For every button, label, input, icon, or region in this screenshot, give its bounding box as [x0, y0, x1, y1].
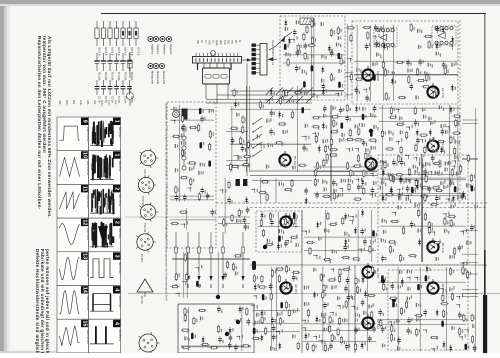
- capacitor: [316, 191, 318, 194]
- svg-text:4: 4: [114, 288, 120, 291]
- value label: [285, 165, 286, 168]
- resistor: [350, 73, 352, 82]
- value label: [396, 163, 397, 166]
- value label: [360, 289, 361, 292]
- value label: [304, 286, 305, 290]
- legend symbol circle row2 3: [159, 63, 164, 68]
- resistor: [293, 92, 302, 94]
- wire junction: [339, 189, 342, 192]
- resistor: [384, 161, 386, 170]
- value label: [375, 239, 376, 242]
- resistor: [390, 245, 392, 254]
- resistor: [383, 282, 385, 291]
- resistor: [346, 27, 355, 29]
- resistor: [329, 324, 331, 333]
- value label: [308, 136, 309, 139]
- wire: [283, 89, 344, 91]
- resistor: [233, 88, 235, 97]
- value label: [411, 270, 412, 273]
- diode: [362, 276, 364, 284]
- value label: [193, 179, 194, 182]
- value label: [299, 66, 300, 69]
- resistor: [415, 143, 417, 152]
- choke coil: [196, 281, 199, 287]
- wire junction: [182, 282, 186, 286]
- legend trimmer row2 item 1: [94, 53, 100, 71]
- value label: [337, 129, 338, 132]
- value label: [264, 145, 265, 148]
- diode: [416, 129, 418, 137]
- svg-text:AF 239: AF 239: [376, 71, 380, 81]
- resistor: [292, 110, 294, 119]
- value label: [293, 99, 294, 102]
- bus wire c: [217, 94, 340, 96]
- value label: [428, 172, 429, 175]
- resistor: [362, 27, 371, 29]
- video oscillogram trace 1: [101, 121, 102, 143]
- value label: [296, 243, 297, 247]
- resistor: [408, 255, 417, 257]
- resistor: [330, 28, 332, 37]
- wire: [186, 208, 188, 230]
- channel switch contacts: [253, 118, 262, 124]
- choke coil: [253, 328, 256, 334]
- capacitor: [459, 311, 461, 314]
- value label: [421, 285, 422, 288]
- diode: [362, 178, 364, 186]
- resistor: [186, 273, 188, 282]
- value label: [421, 154, 422, 158]
- value label: [296, 277, 297, 280]
- resistor: [286, 265, 288, 274]
- transformer primary circle: [173, 111, 180, 118]
- value label: [274, 132, 275, 135]
- capacitor: [417, 137, 419, 140]
- resistor: [170, 286, 179, 288]
- value label: [326, 285, 327, 288]
- bus wire g: [250, 264, 487, 266]
- oscillogram trace 15: [60, 326, 80, 347]
- resistor: [410, 23, 412, 32]
- value label: [187, 310, 188, 313]
- capacitor: [340, 107, 342, 110]
- value label: [318, 179, 319, 182]
- module box line output: [178, 304, 254, 353]
- wire: [304, 250, 376, 252]
- wire junction: [330, 269, 333, 272]
- value label: [341, 54, 342, 57]
- value label: [395, 80, 396, 83]
- choke coil: [392, 301, 395, 307]
- resistor: [333, 119, 335, 128]
- module box AFC: [256, 211, 302, 252]
- diode: [442, 26, 444, 34]
- value label: [428, 73, 429, 76]
- value label: [389, 97, 390, 100]
- value label: [458, 122, 459, 125]
- value label: [327, 139, 328, 142]
- wire: [421, 158, 423, 262]
- resistor: [315, 168, 317, 177]
- value label: [435, 171, 436, 175]
- value label: [340, 44, 341, 47]
- legend cap row3 item 3: [108, 80, 113, 95]
- resistor: [246, 307, 248, 316]
- choke coil: [338, 82, 341, 88]
- capacitor: [382, 326, 384, 329]
- wire: [354, 74, 458, 76]
- value label: [296, 20, 297, 24]
- value label: [245, 118, 246, 121]
- value label: [449, 178, 450, 182]
- capacitor: [228, 197, 230, 200]
- resistor: [424, 146, 426, 155]
- resistor: [414, 314, 423, 316]
- value label: [283, 130, 284, 134]
- video oscillogram tag 1: [113, 151, 120, 158]
- value label: [308, 285, 309, 288]
- value label: [240, 253, 241, 256]
- value label: [189, 167, 190, 171]
- svg-text:R1 10k: R1 10k: [97, 72, 101, 81]
- wire: [419, 267, 421, 351]
- value label: [337, 296, 338, 300]
- value label: [453, 107, 454, 110]
- diode: [289, 37, 291, 45]
- capacitor: [379, 309, 381, 312]
- value label: [402, 284, 403, 287]
- value label: [416, 318, 417, 322]
- wire junction: [350, 217, 354, 221]
- resistor: [260, 218, 262, 227]
- value label: [432, 227, 433, 230]
- value label: [283, 98, 284, 101]
- value label: [401, 157, 402, 160]
- value label: [297, 215, 298, 218]
- bus wire vertical: [246, 63, 248, 176]
- diode: [345, 213, 347, 221]
- resistor: [189, 127, 198, 129]
- wire junction: [380, 161, 384, 165]
- resistor: [261, 275, 263, 284]
- value label: [360, 70, 361, 73]
- value label: [257, 329, 258, 332]
- tube socket V3 PCL86: [140, 204, 155, 219]
- resistor: [471, 174, 473, 183]
- wire junction: [440, 289, 443, 292]
- video oscillogram box 1 frame: [89, 151, 121, 185]
- wire junction: [460, 232, 464, 236]
- wire junction: [459, 337, 462, 340]
- capacitor: [371, 187, 373, 190]
- value label: [449, 255, 450, 259]
- value label: [185, 152, 186, 155]
- resistor: [284, 189, 293, 191]
- value label: [325, 313, 326, 316]
- value label: [445, 161, 446, 165]
- value label: [407, 297, 408, 301]
- value label: [289, 304, 290, 307]
- resistor: [443, 309, 445, 318]
- resistor: [419, 134, 428, 136]
- svg-text:9: 9: [82, 120, 88, 123]
- resistor: [424, 193, 426, 202]
- resistor: [252, 337, 261, 339]
- value label: [341, 92, 342, 95]
- value label: [238, 155, 239, 159]
- value label: [324, 341, 325, 344]
- diode: [429, 129, 431, 137]
- resistor: [230, 163, 232, 172]
- svg-text:Bild 6Vss: Bild 6Vss: [118, 228, 121, 239]
- resistor: [346, 103, 348, 112]
- value label: [279, 229, 280, 233]
- resistor: [388, 116, 397, 118]
- value label: [276, 335, 277, 338]
- value label: [181, 133, 182, 137]
- resistor: [323, 315, 325, 324]
- value label: [243, 140, 244, 143]
- svg-text:PL 504: PL 504: [140, 254, 144, 263]
- diode: [401, 278, 403, 286]
- value label: [237, 90, 238, 93]
- choke coil: [311, 65, 314, 71]
- resistor: [331, 116, 340, 118]
- capacitor: [364, 238, 366, 241]
- band switch contact row: [266, 88, 273, 95]
- resistor: [330, 73, 332, 82]
- wire junction: [423, 330, 426, 333]
- resistor: [292, 271, 301, 273]
- wire: [354, 60, 458, 62]
- resistor: [314, 178, 316, 187]
- resistor: [320, 273, 322, 282]
- value label: [362, 123, 363, 127]
- resistor: [181, 148, 183, 157]
- value label: [325, 56, 326, 59]
- capacitor: [207, 192, 209, 195]
- value label: [474, 188, 475, 191]
- resistor: [342, 268, 351, 270]
- wire junction: [291, 39, 294, 42]
- capacitor: [285, 240, 287, 243]
- resistor: [415, 179, 417, 188]
- wire junction: [369, 195, 372, 198]
- tuner connector bar: [193, 57, 242, 64]
- wire: [252, 310, 300, 312]
- value label: [266, 165, 267, 169]
- capacitor: [184, 194, 186, 197]
- resistor: [339, 317, 341, 326]
- value label: [259, 320, 260, 323]
- scan edge left strip: [0, 0, 4, 353]
- diode: [316, 316, 318, 324]
- capacitor: [391, 283, 393, 286]
- resistor: [241, 345, 250, 347]
- value label: [342, 319, 343, 322]
- wire junction: [303, 231, 307, 235]
- svg-text:Bild 4Vss: Bild 4Vss: [118, 127, 121, 138]
- value label: [375, 140, 376, 143]
- capacitor: [436, 26, 438, 29]
- wire: [311, 19, 313, 98]
- value label: [445, 168, 446, 172]
- wire junction: [460, 263, 464, 267]
- value label: [375, 193, 376, 196]
- value label: [465, 268, 466, 271]
- wire junction: [319, 340, 322, 343]
- value label: [416, 303, 417, 307]
- capacitor: [458, 244, 460, 247]
- svg-text:Si7 0,8: Si7 0,8: [136, 47, 140, 56]
- capacitor: [305, 187, 307, 190]
- wire: [230, 143, 311, 145]
- value label: [388, 70, 389, 73]
- value label: [371, 146, 372, 150]
- resistor: [365, 152, 367, 161]
- capacitor: [366, 43, 368, 46]
- diode: [356, 105, 358, 113]
- resistor: [367, 31, 369, 40]
- resistor: [430, 204, 439, 206]
- oscillogram box 14 frame: [57, 286, 89, 320]
- wire junction: [355, 179, 358, 182]
- choke coil: [441, 321, 444, 327]
- value label: [417, 29, 418, 33]
- bus wire d: [230, 90, 344, 92]
- value label: [439, 44, 440, 47]
- diode: [463, 191, 465, 199]
- resistor: [307, 342, 309, 351]
- wire: [181, 345, 251, 347]
- wire: [462, 158, 478, 160]
- resistor: [453, 115, 462, 117]
- resistor: [181, 346, 190, 348]
- value label: [358, 328, 359, 331]
- wire junction: [406, 180, 410, 184]
- value label: [281, 162, 282, 166]
- wire: [303, 323, 376, 325]
- resistor: [442, 294, 444, 303]
- wire junction: [373, 36, 376, 40]
- svg-text:4,7: 4,7: [204, 40, 208, 44]
- resistor: [372, 265, 374, 274]
- value label: [274, 112, 275, 115]
- value label: [328, 229, 329, 232]
- value label: [254, 321, 255, 325]
- value label: [439, 170, 440, 173]
- value label: [179, 273, 180, 276]
- value label: [203, 142, 204, 145]
- value label: [178, 188, 179, 191]
- value label: [466, 318, 467, 321]
- wire: [313, 116, 377, 118]
- value label: [428, 117, 429, 121]
- value label: [321, 22, 322, 26]
- resistor: [331, 333, 333, 342]
- value label: [324, 187, 325, 191]
- value label: [366, 171, 367, 174]
- value label: [385, 183, 386, 186]
- wire junction: [171, 120, 175, 123]
- diode: [288, 213, 290, 221]
- value label: [188, 330, 189, 333]
- resistor: [253, 274, 255, 283]
- wire junction: [422, 174, 425, 177]
- value label: [321, 54, 322, 58]
- value label: [268, 143, 269, 147]
- diode: [322, 88, 324, 96]
- resistor: [275, 268, 284, 270]
- resistor: [451, 168, 453, 177]
- value label: [412, 125, 413, 128]
- value label: [413, 165, 414, 169]
- value label: [414, 27, 415, 30]
- wire junction: [358, 249, 362, 253]
- wire junction: [302, 320, 305, 323]
- value label: [235, 271, 236, 275]
- value label: [275, 270, 276, 273]
- wire junction: [449, 46, 453, 50]
- svg-text:R2 10k: R2 10k: [104, 72, 108, 81]
- svg-text:Si3 0,8: Si3 0,8: [110, 47, 114, 56]
- choke coil: [200, 142, 203, 148]
- diode: [436, 309, 438, 317]
- value label: [415, 203, 416, 207]
- choke coil: [362, 114, 365, 120]
- value label: [353, 172, 354, 175]
- capacitor: [182, 124, 184, 127]
- value label: [433, 137, 434, 140]
- value label: [348, 245, 349, 248]
- value label: [453, 182, 454, 185]
- resistor: [325, 145, 327, 154]
- resistor: [209, 130, 211, 139]
- wire: [230, 143, 311, 145]
- capacitor: [270, 283, 272, 286]
- resistor: [323, 259, 332, 261]
- value label: [332, 106, 333, 110]
- capacitor: [407, 59, 409, 62]
- value label: [362, 107, 363, 111]
- value label: [348, 234, 349, 237]
- svg-text:Tuner 29301-001.01: Tuner 29301-001.01: [271, 40, 275, 66]
- resistor: [326, 153, 328, 162]
- value label: [248, 225, 249, 228]
- heater feed wire: [125, 216, 216, 218]
- value label: [395, 243, 396, 246]
- resistor: [447, 215, 456, 217]
- resistor: [385, 194, 394, 196]
- value label: [394, 107, 395, 110]
- wire: [252, 331, 300, 333]
- svg-text:AFC: AFC: [208, 40, 212, 45]
- resistor: [322, 195, 331, 197]
- capacitor: [324, 105, 326, 108]
- resistor: [312, 344, 314, 353]
- resistor: [291, 179, 293, 188]
- speaker triangle symbol: [137, 279, 153, 292]
- wire junction: [415, 181, 419, 185]
- legend cap row3 item 6: [127, 80, 132, 95]
- resistor: [175, 185, 177, 194]
- value label: [318, 132, 319, 135]
- resistor: [340, 57, 342, 66]
- value label: [251, 143, 252, 146]
- wire: [252, 179, 312, 181]
- value label: [444, 180, 445, 183]
- value label: [264, 214, 265, 217]
